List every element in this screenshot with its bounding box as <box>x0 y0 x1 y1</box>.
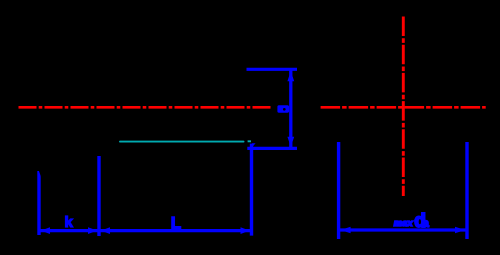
extension line head right <box>97 156 100 236</box>
arrow k right <box>88 227 97 234</box>
centerline right view vertical (red dash-dot) <box>402 17 405 197</box>
arrow L left <box>101 227 110 234</box>
arrow d down <box>287 137 294 147</box>
dimension line d (vertical) <box>289 71 292 148</box>
centerline right view horizontal (red dash-dot) <box>321 106 486 109</box>
svg-text:max: max <box>394 218 414 229</box>
label diameter d <box>277 105 289 113</box>
thread core line (teal) <box>120 141 244 143</box>
dimension line across corners <box>339 228 467 231</box>
arrow across-corners right <box>455 227 465 234</box>
thread core line end dash <box>248 140 251 142</box>
tick at step corner <box>252 143 256 147</box>
arrow L right <box>241 227 250 234</box>
extension line diameter bottom <box>247 147 297 150</box>
extension line head left <box>37 171 40 235</box>
arrow k left <box>41 227 50 234</box>
extension line shaft end (vertical) <box>250 144 253 236</box>
arrow across-corners left <box>340 227 350 234</box>
extension line diameter top <box>247 68 298 71</box>
extension line hex left <box>337 142 340 239</box>
arrow d up <box>287 71 294 81</box>
dimension line k and L <box>39 229 253 232</box>
svg-text:k: k <box>65 214 74 231</box>
svg-text:a: a <box>422 216 429 230</box>
centerline left view (red dash-dot) <box>19 106 272 109</box>
extension line hex right <box>465 142 468 239</box>
svg-text:L: L <box>171 214 181 233</box>
label max d a <box>394 211 430 232</box>
